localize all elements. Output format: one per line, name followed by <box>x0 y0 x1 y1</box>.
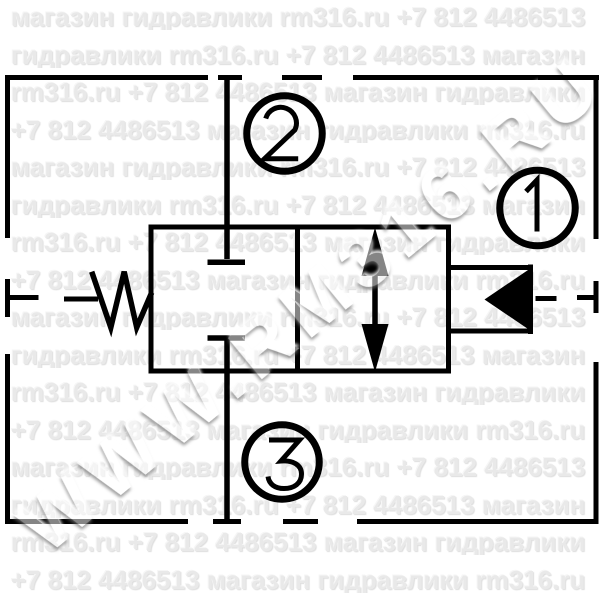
svg-text:WWW.RM316.RU: WWW.RM316.RU <box>3 39 600 570</box>
blocked port T-bar top <box>208 260 246 266</box>
port 2 wire <box>224 80 230 259</box>
cavity border bottom-right segment <box>357 519 599 524</box>
port 2 digit <box>265 107 299 158</box>
valve body V1 envelope <box>151 227 449 371</box>
cavity border right upper segment <box>594 75 599 239</box>
port 1 border dash <box>594 281 599 313</box>
valve body position divider <box>295 227 300 371</box>
cavity border top-left segment <box>5 75 208 80</box>
port 3 border cap <box>213 519 241 524</box>
cavity border left upper segment <box>5 75 10 238</box>
cavity border bottom middle dash <box>283 519 318 524</box>
blocked port T-bar bottom <box>208 335 246 341</box>
port 4 stub wire <box>5 295 39 300</box>
flow arrow shaft <box>372 240 378 360</box>
cavity border right lower segment <box>594 362 599 524</box>
cavity border top middle dash <box>282 75 322 80</box>
port 2 circle <box>247 96 323 172</box>
pilot line dash left <box>64 297 98 302</box>
flow arrow head up <box>362 228 389 277</box>
port 1 circle <box>500 170 576 246</box>
cavity border left lower segment <box>5 354 10 524</box>
cavity border top-right segment <box>353 75 599 80</box>
watermark text rows <box>11 4 600 30</box>
port 3 wire <box>224 340 230 519</box>
port 2 border cap <box>218 75 242 80</box>
seat box right edge <box>528 265 533 335</box>
flow arrow head down <box>362 324 389 372</box>
poppet triangle <box>485 268 532 331</box>
seat box top wire <box>449 265 532 270</box>
pilot line dash right <box>536 296 557 301</box>
port 1 stub wire <box>577 295 596 300</box>
port 3 digit <box>268 440 302 489</box>
port 4 border dash <box>5 279 10 317</box>
cavity border top-right repaint (kept solid over watermark) <box>538 75 599 80</box>
cavity border bottom-left segment <box>5 519 188 524</box>
port 1 digit <box>526 180 537 232</box>
port 3 circle <box>245 425 320 500</box>
spring <box>92 272 152 328</box>
seat box bottom wire <box>449 329 532 334</box>
